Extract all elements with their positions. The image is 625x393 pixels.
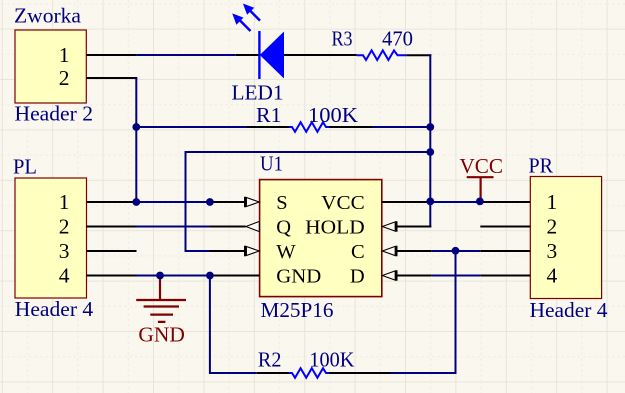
- wire GND row down to R2 left lead: [210, 276, 257, 374]
- R2 pins: [257, 372, 391, 374]
- R1 pins: [247, 126, 372, 128]
- pin C (input arrow): [397, 246, 432, 256]
- junction C row / R2 vertical: [452, 247, 460, 255]
- pin PR 2 (stub): [480, 226, 530, 228]
- svg-text:Header 4: Header 4: [15, 297, 94, 321]
- junction S row at U1 pin end: [206, 198, 214, 206]
- junction PL1 row / vertical: [132, 198, 140, 206]
- IC U1 M25P16: [210, 152, 432, 323]
- R2 zigzag body: [289, 368, 329, 378]
- pin PR 1: [480, 201, 530, 203]
- wire PL1 to U1 S: [137, 201, 210, 203]
- svg-text:W: W: [276, 241, 296, 263]
- pin Zworka 2: [86, 77, 137, 79]
- LED1 light arrow lower: [240, 20, 251, 31]
- pin Q (output arrow): [210, 226, 246, 228]
- svg-text:R1: R1: [256, 103, 282, 127]
- LED LED1: [232, 4, 357, 105]
- pin D (input arrow): [397, 270, 432, 280]
- power port VCC: [460, 154, 504, 201]
- svg-text:PL: PL: [13, 155, 37, 179]
- pin PL 1: [87, 201, 137, 203]
- svg-text:C: C: [351, 241, 365, 263]
- LED1 triangle: [260, 32, 284, 79]
- wire C row down to R2 right lead: [391, 251, 456, 373]
- R3 zigzag body: [357, 50, 407, 60]
- svg-text:1: 1: [547, 190, 558, 214]
- pin W (input arrow): [210, 246, 245, 256]
- svg-text:3: 3: [59, 239, 70, 263]
- wire U1 D to PR4: [432, 275, 481, 277]
- junction GND tap on PL4 row: [156, 272, 164, 280]
- svg-text:LED1: LED1: [232, 81, 284, 105]
- svg-text:100K: 100K: [309, 348, 354, 372]
- svg-text:U1: U1: [260, 152, 283, 176]
- wire R1 row right segment: [372, 126, 430, 128]
- wire Zworka pin2 down to R1 row and PL pin1 row: [135, 78, 137, 202]
- connector PL (Header 4) body: [15, 178, 87, 298]
- wire U1 C to PR3: [432, 250, 481, 252]
- pin S (input arrow): [210, 197, 245, 207]
- pin PR 3: [480, 250, 530, 252]
- pin GND: [210, 275, 260, 277]
- R1 zigzag body: [289, 122, 329, 132]
- connector PR (Header 4) body: [530, 177, 601, 299]
- svg-text:1: 1: [59, 43, 70, 67]
- svg-text:M25P16: M25P16: [261, 298, 334, 322]
- svg-text:Header 4: Header 4: [530, 298, 609, 322]
- R3 right pin: [406, 54, 431, 56]
- junction R1 right / vertical: [426, 123, 434, 131]
- svg-text:PR: PR: [529, 154, 554, 178]
- pin HOLD (input arrow): [397, 221, 432, 231]
- pin PR 4: [480, 275, 530, 277]
- svg-text:S: S: [276, 192, 287, 214]
- junction W net / vertical: [426, 148, 434, 156]
- junction VCC symbol tap: [476, 198, 484, 206]
- svg-text:Header 2: Header 2: [15, 102, 94, 126]
- U1 body: [260, 180, 382, 297]
- svg-text:R2: R2: [258, 348, 282, 372]
- svg-text:4: 4: [547, 264, 558, 288]
- pin PL 3 (stub): [87, 250, 137, 252]
- wire Zworka pin1 to LED1 cathode: [136, 54, 235, 56]
- junction R2 tap on PL4 row: [206, 272, 214, 280]
- wire U1 VCC to PR1: [431, 201, 480, 203]
- svg-text:2: 2: [59, 215, 70, 239]
- svg-text:100K: 100K: [308, 103, 358, 127]
- svg-text:1: 1: [59, 190, 70, 214]
- connector Zworka (Header 2) body: [15, 30, 86, 103]
- wire vertical from R3 down through R1 row, W net and VCC row to U1 HOLD pin: [429, 54, 431, 227]
- power port GND (ground): [136, 277, 186, 347]
- wire R1 row left segment: [136, 126, 247, 128]
- pin PL 2: [87, 226, 137, 228]
- svg-text:GND: GND: [276, 266, 321, 288]
- LED1 cathode bar: [258, 31, 260, 79]
- wire W net from vertical x430 left and down to U1 W pin: [186, 152, 431, 251]
- resistor R3: [332, 27, 432, 61]
- svg-text:3: 3: [547, 239, 558, 263]
- wire PL4 to U1 GND: [137, 275, 210, 277]
- pin VCC: [382, 201, 431, 203]
- svg-text:D: D: [350, 266, 365, 288]
- LED1 light arrow upper: [249, 10, 260, 21]
- pin PL 4: [87, 275, 137, 277]
- svg-text:470: 470: [382, 27, 413, 51]
- resistor R1: [247, 103, 372, 132]
- svg-text:Q: Q: [276, 217, 291, 239]
- svg-text:2: 2: [59, 66, 70, 90]
- svg-text:4: 4: [59, 264, 70, 288]
- LED1 pins: [236, 54, 357, 56]
- pin Zworka 1: [86, 54, 136, 56]
- wire PL2 to U1 Q: [137, 226, 210, 228]
- resistor R2: [257, 348, 391, 378]
- svg-text:VCC: VCC: [321, 192, 365, 214]
- svg-text:2: 2: [547, 215, 558, 239]
- svg-text:R3: R3: [332, 27, 353, 51]
- junction VCC row / vertical: [426, 198, 434, 206]
- junction Zworka2 / R1 row: [132, 123, 140, 131]
- svg-text:HOLD: HOLD: [305, 217, 365, 239]
- svg-text:GND: GND: [138, 323, 185, 347]
- svg-text:VCC: VCC: [460, 154, 504, 178]
- svg-text:Zworka: Zworka: [14, 4, 82, 28]
